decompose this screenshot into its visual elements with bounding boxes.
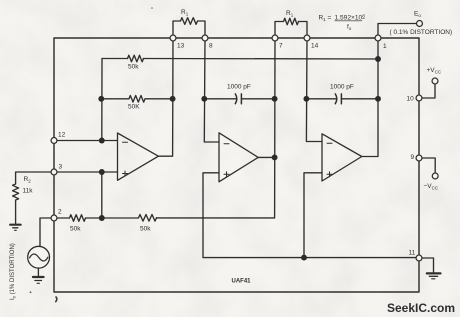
capacitor C2 plates: [335, 94, 341, 104]
stray scan dot: [30, 291, 32, 293]
pin 3: [51, 169, 57, 175]
resistor R1 (external, pins 13-8): [173, 18, 205, 38]
ground (R2): [10, 224, 20, 226]
terminal +Vcc: [432, 78, 438, 84]
junction: C2 left on pin-14 rail: [303, 96, 309, 102]
resistor 50k (feedback, top): [128, 55, 144, 62]
svg-text:1: 1: [383, 43, 387, 50]
resistor 50k (second, to A2 output node): [102, 215, 157, 222]
resistor 50K (feedback, mid): [101, 96, 173, 103]
stray scan dot 2: [151, 7, 153, 9]
svg-text:R1 =: R1 =: [319, 15, 332, 23]
svg-text:7: 7: [279, 43, 283, 50]
junction: C2 right on pin-1 rail: [375, 96, 381, 102]
capacitor C1 right lead: [241, 98, 274, 100]
UAF41 package outline box: [54, 38, 419, 292]
svg-text:SeekIC.com: SeekIC.com: [387, 301, 455, 315]
pin 7: [272, 35, 278, 41]
wire: A3 plus input down to ground row: [304, 173, 322, 258]
capacitor C2 1000 pF (left plate lead): [306, 98, 336, 100]
pin 12: [51, 138, 57, 144]
svg-text:50k: 50k: [140, 226, 151, 233]
wire: top 50k feedback from node A to pin-1 rail: [102, 58, 378, 61]
wire: pin 7 rail down through A2 output to 50k row: [157, 38, 276, 218]
junction: feedback on pin-1 rail: [375, 56, 381, 62]
pin 14: [304, 35, 310, 41]
resistor R1 (external, pins 7-14): [275, 18, 307, 38]
wire: pin 8 rail down to A2 minus input: [204, 38, 219, 142]
resistor 50k (input, pin2 side): [54, 215, 102, 222]
svg-text:1.592×108: 1.592×108: [335, 14, 366, 22]
wire: pin 14 rail down to A3 minus input: [306, 38, 322, 142]
svg-text:50k: 50k: [128, 64, 139, 71]
svg-text:2: 2: [58, 209, 62, 216]
wire: A2 output to pin-7 rail: [258, 156, 274, 158]
junction: C1 left on pin-8 rail: [201, 96, 207, 102]
wire: pin 12 to A1 minus input: [54, 140, 118, 142]
op-amp A1: [118, 133, 159, 180]
svg-text:9: 9: [411, 154, 415, 161]
wire: pin 11 to ground: [422, 258, 434, 273]
junction: A3 plus on ground row: [301, 255, 307, 261]
pin 13: [170, 35, 176, 41]
svg-text:Io (1% DISTORTION): Io (1% DISTORTION): [10, 243, 16, 300]
wire: vertical from 50k corner down to A1 minus node: [101, 59, 103, 141]
ground (pin 11): [427, 272, 441, 274]
pin 2: [51, 215, 57, 221]
terminal -Vcc: [432, 173, 438, 179]
svg-text:1000 pF: 1000 pF: [330, 84, 354, 91]
stray scan mark (comma): [55, 297, 57, 303]
junction: A1 minus input: [99, 138, 105, 144]
svg-text:11: 11: [409, 250, 416, 257]
capacitor C1 1000 pF (left plate lead): [204, 98, 236, 100]
terminal E_o: [417, 21, 423, 27]
svg-text:50k: 50k: [70, 226, 81, 233]
pin 11: [416, 255, 422, 261]
wire: E_o output from pin 1: [378, 24, 416, 39]
junction: pin-2 row / A1 plus rail: [99, 215, 105, 221]
junction: 50K mid left / A1 minus rail: [98, 96, 104, 102]
junction: 50K mid right on pin-13 rail: [170, 96, 176, 102]
pin 8: [202, 35, 208, 41]
wire: pin 3 to A1 plus input: [54, 171, 118, 173]
svg-text:8: 8: [209, 43, 213, 50]
op-amp A2: [219, 133, 258, 182]
svg-text:14: 14: [311, 43, 319, 50]
junction: A1 plus input: [99, 169, 105, 175]
resistor R2 11k: [13, 172, 54, 224]
svg-text:UAF41: UAF41: [232, 279, 252, 285]
svg-text:3: 3: [59, 164, 63, 171]
wire: pin 2 to source: [40, 218, 54, 246]
svg-text:1000 pF: 1000 pF: [227, 84, 251, 91]
pin 1: [375, 35, 381, 41]
capacitor C2 right lead: [341, 98, 378, 100]
wire: A1 plus node vertical down to pin-2 row: [101, 172, 103, 218]
wire: pin 1 rail down to A3 output: [362, 38, 378, 157]
op-amp A3: [322, 134, 362, 181]
source V1 (sine generator): [28, 246, 50, 268]
ground (source): [37, 268, 39, 276]
svg-text:11k: 11k: [23, 188, 34, 195]
pin 9: [416, 155, 422, 161]
svg-text:( 0.1% DISTORTION): ( 0.1% DISTORTION): [390, 29, 453, 36]
capacitor C1 plates: [235, 94, 241, 104]
svg-text:12: 12: [58, 132, 66, 139]
junction: A2 output on pin-7 rail: [272, 154, 278, 160]
junction: C1 right on pin-7 rail: [272, 96, 278, 102]
wire: pin 10 to +Vcc terminal: [422, 84, 435, 98]
svg-text:50K: 50K: [128, 104, 140, 111]
svg-text:10: 10: [407, 96, 415, 103]
pin 10: [416, 95, 422, 101]
wire: pin 9 to -Vcc terminal: [422, 158, 435, 173]
wire: pin 13 rail down to A1 output: [158, 38, 173, 156]
svg-text:13: 13: [177, 43, 185, 50]
wire: A2 plus input down to ground row: [203, 173, 419, 258]
